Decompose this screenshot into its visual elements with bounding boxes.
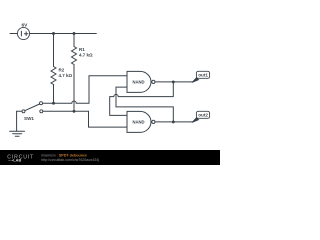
svg-text:NAND: NAND bbox=[132, 120, 144, 125]
wire feedback Qbar: NAND2 out to NAND1 input B bbox=[116, 87, 173, 122]
node junction NAND2 output bbox=[172, 120, 175, 123]
wire bottom throw to NAND2 input B bbox=[43, 111, 127, 127]
wire NAND1 output to out1 bbox=[155, 81, 193, 83]
svg-text:4.7 kΩ: 4.7 kΩ bbox=[79, 53, 93, 58]
svg-text:miamicm : SPDT debounce: miamicm : SPDT debounce bbox=[41, 153, 87, 157]
NAND gate U2 bbox=[127, 111, 155, 132]
resistor R1 bbox=[72, 47, 77, 65]
svg-text:NAND: NAND bbox=[132, 80, 144, 85]
svg-text:6V: 6V bbox=[21, 22, 28, 28]
svg-text:out1: out1 bbox=[198, 73, 208, 78]
svg-text:http://circuitlab.com/c/w7625a: http://circuitlab.com/c/w7625aox434j bbox=[41, 158, 99, 162]
svg-text:out2: out2 bbox=[198, 113, 208, 118]
svg-text:SW1: SW1 bbox=[24, 116, 34, 121]
flag out2 bbox=[192, 111, 210, 122]
wire NAND2 output to out2 bbox=[155, 121, 193, 123]
wire R1 bottom lead (crosses top-throw wire) bbox=[73, 65, 75, 112]
svg-text:R2: R2 bbox=[59, 67, 65, 72]
wire R2 bottom lead bbox=[53, 85, 55, 104]
resistor R2 bbox=[51, 67, 56, 85]
svg-text:4.7 kΩ: 4.7 kΩ bbox=[59, 73, 73, 78]
flag out1 bbox=[192, 71, 210, 82]
voltage source V1 bbox=[10, 27, 30, 39]
svg-text:—▪LAB: —▪LAB bbox=[8, 158, 21, 163]
op-amp, er, NAND gate U1 bbox=[127, 71, 155, 92]
node junction top rail / R1 bbox=[73, 32, 76, 35]
switch SW1 bbox=[17, 102, 43, 113]
label R1 4.7 kOhm bbox=[79, 47, 93, 58]
footer credit text bbox=[41, 153, 99, 162]
footer CircuitLab logo bbox=[7, 154, 34, 162]
node junction NAND1 output bbox=[172, 80, 175, 83]
node junction R1 / bottom throw bbox=[73, 110, 76, 113]
wire R2 top lead bbox=[53, 34, 55, 67]
footer bar bbox=[0, 150, 220, 165]
wire top rail bbox=[30, 33, 97, 35]
ground bbox=[10, 111, 25, 136]
wire top throw to NAND1 input A (hop over R1 lead) bbox=[43, 76, 127, 103]
wire R1 top lead bbox=[73, 34, 75, 47]
wire feedback Q: NAND1 out to NAND2 input A (hop over other feedback) bbox=[110, 82, 174, 116]
node junction top rail / R2 bbox=[52, 32, 55, 35]
label R2 4.7 kOhm bbox=[59, 67, 73, 78]
svg-text:R1: R1 bbox=[79, 47, 85, 52]
node junction R2 / top throw bbox=[52, 102, 55, 105]
